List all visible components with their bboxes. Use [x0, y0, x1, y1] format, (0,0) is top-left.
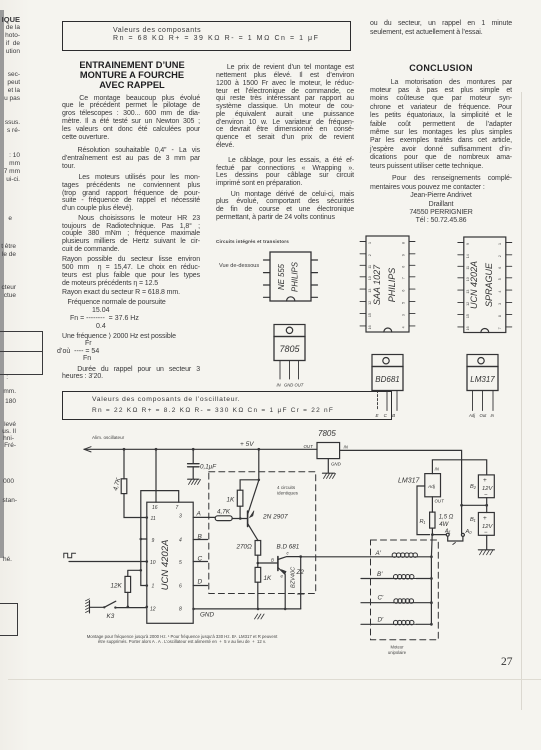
svg-text:−: − — [484, 530, 488, 536]
svg-text:c: c — [287, 551, 290, 556]
top right continuation text — [370, 20, 512, 37]
svg-text:Moteur: Moteur — [390, 645, 404, 650]
svg-text:16: 16 — [152, 505, 158, 511]
wire LM317 out — [431, 497, 433, 512]
svg-text:3: 3 — [402, 314, 406, 316]
svg-text:13: 13 — [466, 290, 470, 294]
svg-text:B₂: B₂ — [470, 484, 477, 490]
svg-text:6: 6 — [179, 584, 182, 590]
svg-text:7: 7 — [498, 327, 502, 329]
svg-text:PHILIPS: PHILIPS — [291, 261, 300, 292]
svg-text:K3: K3 — [107, 613, 115, 620]
wire +5V rail — [84, 447, 317, 452]
resistor 4,7K (base, horizontal) — [215, 509, 247, 521]
svg-text:BD681: BD681 — [375, 375, 399, 384]
svg-text:1K: 1K — [227, 497, 236, 504]
node emitter top — [258, 479, 261, 482]
svg-text:OUT: OUT — [295, 383, 304, 388]
battery B2 12V — [470, 475, 494, 499]
wire coil common — [430, 535, 433, 625]
svg-text:A₁: A₁ — [444, 529, 451, 535]
node GND junctions — [192, 608, 286, 611]
svg-text:12K: 12K — [111, 583, 123, 590]
svg-text:B: B — [271, 558, 274, 563]
svg-text:OUT: OUT — [435, 499, 445, 504]
svg-text:11: 11 — [368, 265, 372, 269]
left scan shadow strip — [0, 10, 4, 558]
svg-text:10: 10 — [466, 277, 470, 281]
ground (GND rail) — [255, 614, 265, 619]
square wave source — [64, 553, 147, 561]
svg-text:7: 7 — [176, 505, 179, 511]
svg-text:1: 1 — [498, 243, 502, 245]
IC U1 UCN 4202A — [147, 502, 193, 623]
svg-text:IN: IN — [344, 445, 349, 450]
svg-text:10: 10 — [368, 276, 372, 280]
wire +5V drop to emitter — [258, 449, 260, 480]
dashed box moteur unipolaire — [371, 540, 439, 655]
svg-text:7805: 7805 — [318, 429, 336, 438]
node rail junctions — [123, 448, 261, 451]
svg-text:15: 15 — [466, 314, 470, 318]
svg-text:16: 16 — [368, 325, 372, 329]
node bus junctions — [140, 516, 149, 608]
svg-text:D′: D′ — [378, 617, 385, 624]
svg-text:8: 8 — [179, 607, 182, 613]
svg-text:identiques: identiques — [277, 491, 299, 496]
left page figure fragment 2 — [0, 603, 18, 636]
svg-text:8: 8 — [498, 315, 502, 317]
svg-text:GND: GND — [331, 462, 342, 467]
svg-text:GND: GND — [200, 612, 214, 619]
middle column small headings — [216, 239, 289, 244]
inductor coil B' — [361, 571, 431, 579]
svg-text:4 circuits: 4 circuits — [277, 485, 296, 490]
svg-text:IN: IN — [277, 383, 282, 388]
svg-text:3: 3 — [179, 514, 182, 520]
node midpoint tap — [460, 504, 463, 507]
svg-text:4: 4 — [498, 291, 502, 293]
node 12K bottom — [127, 606, 130, 609]
ground (capacitor) — [188, 479, 201, 484]
svg-text:5: 5 — [179, 560, 182, 566]
resistor 1K (base-emitter) — [255, 563, 272, 609]
node A0 terminal — [461, 529, 472, 536]
svg-text:D: D — [198, 579, 203, 586]
svg-text:15: 15 — [368, 313, 372, 317]
svg-text:A: A — [196, 511, 201, 518]
svg-text:−: − — [484, 493, 488, 499]
svg-text:A₀: A₀ — [465, 529, 473, 535]
svg-text:SPRAGUE: SPRAGUE — [484, 262, 494, 307]
regulator package LM317 — [467, 355, 498, 419]
svg-text:12V: 12V — [482, 486, 493, 492]
svg-text:270Ω: 270Ω — [236, 544, 253, 551]
ground (K3) — [86, 599, 90, 613]
node D — [193, 579, 207, 586]
resistor 4,7K (oscillator pull-up) — [112, 449, 147, 517]
faint horizontal scan line — [8, 679, 541, 680]
formula 1 — [92, 307, 110, 314]
svg-text:9: 9 — [152, 538, 155, 544]
svg-text:C′: C′ — [378, 595, 385, 602]
node collector output — [299, 555, 302, 558]
regulator LM317 — [398, 467, 444, 504]
switch K3 — [90, 601, 147, 620]
transistor package BD681 — [372, 355, 403, 419]
resistor 12K — [111, 570, 141, 607]
svg-text:unipolaire: unipolaire — [388, 650, 407, 655]
svg-text:R₁: R₁ — [420, 519, 426, 525]
battery B1 12V — [470, 513, 494, 537]
svg-text:6: 6 — [498, 267, 502, 269]
pin labels UCN4202A — [150, 505, 182, 613]
svg-text:12: 12 — [150, 607, 156, 613]
node R1 bottom — [431, 533, 446, 536]
wire battery midpoint — [462, 498, 489, 513]
svg-text:9: 9 — [466, 243, 470, 245]
svg-text:+ 5V: + 5V — [240, 441, 254, 448]
schematic caption — [84, 634, 280, 645]
svg-text:5: 5 — [402, 302, 406, 304]
wire B1 to ground — [486, 535, 488, 549]
svg-text:7: 7 — [402, 277, 406, 279]
svg-text:6: 6 — [402, 290, 406, 292]
svg-text:+: + — [483, 515, 487, 522]
IC package NE555 (DIP-8, vue de dessous) — [264, 252, 318, 301]
svg-text:1: 1 — [368, 242, 372, 244]
regulator 7805 — [304, 443, 349, 467]
svg-text:e: e — [281, 574, 284, 579]
capacitor 0,1uF — [188, 449, 218, 479]
wire 12V line from 7805 IN — [340, 450, 462, 533]
transistor Q1 2N2907 — [248, 480, 288, 540]
left page figure fragment 1 — [0, 331, 43, 375]
svg-text:2: 2 — [498, 255, 502, 257]
inductor coil D' — [361, 617, 431, 625]
ground (7805) — [323, 473, 336, 478]
svg-text:9: 9 — [402, 254, 406, 256]
svg-text:OUT: OUT — [304, 444, 314, 449]
svg-text:16: 16 — [466, 326, 470, 330]
transistor Q2 BD681 — [271, 544, 301, 609]
inductor coil C' — [361, 595, 431, 604]
svg-text:B₁: B₁ — [470, 517, 476, 523]
node C — [193, 556, 207, 563]
svg-text:E C B: E C B — [376, 413, 396, 418]
svg-text:7805: 7805 — [279, 344, 300, 354]
zener Z2 BZV40C — [291, 557, 305, 609]
svg-text:0,1μF: 0,1μF — [200, 464, 217, 471]
wire 7805 gnd — [327, 459, 329, 473]
node A1 terminal — [444, 529, 451, 537]
svg-text:UCN 4202A: UCN 4202A — [469, 261, 479, 309]
IC package SAA 1027 (DIP-16) — [360, 236, 415, 332]
svg-text:Adj: Adj — [468, 413, 476, 418]
wire output A' — [301, 556, 392, 558]
svg-text:12: 12 — [466, 302, 470, 306]
svg-text:SAA 1027: SAA 1027 — [372, 264, 382, 305]
svg-text:LM317: LM317 — [398, 478, 421, 485]
wire GND rail — [193, 609, 301, 619]
svg-text:2: 2 — [368, 254, 372, 256]
svg-text:3: 3 — [498, 303, 502, 305]
svg-text:B.D 681: B.D 681 — [277, 544, 300, 551]
svg-text:1: 1 — [152, 584, 155, 590]
page number — [501, 656, 513, 668]
svg-text:+: + — [483, 477, 487, 484]
node 270/1K/base junction — [257, 562, 278, 565]
svg-text:12: 12 — [368, 301, 372, 305]
IC package UCN 4202A (DIP-16) — [458, 237, 512, 333]
svg-text:4W: 4W — [439, 522, 449, 528]
node base junction — [239, 517, 242, 520]
svg-text:Adj: Adj — [427, 484, 436, 490]
svg-text:B′: B′ — [377, 571, 383, 578]
svg-text:10: 10 — [150, 560, 156, 566]
resistor 1K (pull-up to +5V) — [227, 480, 259, 519]
wire pin16 to +5V — [155, 449, 157, 502]
ground (battery) — [478, 550, 494, 555]
svg-text:4: 4 — [179, 538, 182, 544]
svg-text:4,7K: 4,7K — [217, 509, 231, 516]
node A — [193, 511, 215, 518]
svg-text:11: 11 — [466, 266, 470, 270]
svg-text:8: 8 — [402, 242, 406, 244]
svg-text:6: 6 — [402, 266, 406, 268]
svg-text:14: 14 — [466, 254, 470, 258]
svg-text:Z2: Z2 — [296, 569, 305, 576]
svg-text:2N 2907: 2N 2907 — [262, 514, 288, 521]
svg-text:IN: IN — [435, 467, 440, 472]
svg-text:1K: 1K — [264, 575, 273, 582]
svg-text:5: 5 — [498, 278, 502, 280]
wire 24V line to LM317 — [432, 460, 486, 475]
svg-text:LM317: LM317 — [470, 375, 495, 384]
IC package 7805 (TO-220) — [274, 325, 305, 388]
svg-text:11: 11 — [151, 516, 156, 522]
wire pin7 / pin9 / pin1 bus — [141, 491, 179, 586]
svg-text:GND: GND — [284, 383, 293, 388]
svg-text:Alim. oscillateur: Alim. oscillateur — [92, 435, 125, 440]
svg-text:4: 4 — [402, 326, 406, 328]
wire LM317 adj sense — [417, 486, 430, 535]
svg-text:PHILIPS: PHILIPS — [387, 268, 397, 303]
svg-text:In: In — [491, 413, 495, 418]
svg-text:Out: Out — [480, 413, 488, 418]
wire strap A1-A0 — [448, 536, 463, 544]
svg-text:13: 13 — [368, 289, 372, 293]
node B — [193, 534, 207, 541]
resistor 270 ohm — [236, 540, 261, 563]
node coil common junctions — [430, 555, 433, 625]
svg-text:UCN 4202A: UCN 4202A — [160, 540, 171, 591]
dashed box 4 circuits identiques — [209, 472, 316, 594]
inductor coil A' — [375, 550, 432, 557]
right page edge line — [521, 92, 522, 710]
svg-text:1,5 Ω: 1,5 Ω — [439, 515, 454, 521]
resistor R1 1,5 ohm 4W — [420, 512, 454, 535]
svg-text:NE 555: NE 555 — [277, 263, 286, 290]
svg-text:A′: A′ — [375, 550, 382, 557]
